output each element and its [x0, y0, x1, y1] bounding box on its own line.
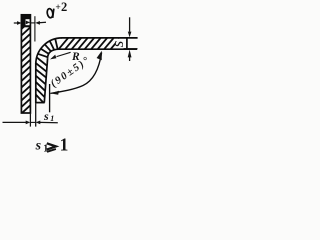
dimension s (sheet thickness, right): [128, 17, 132, 61]
svg-text:s: s: [43, 109, 49, 123]
leg left face: [35, 63, 37, 103]
erased pocket in sheet for thickness label s: [116, 39, 126, 49]
note s1 >= 1: [35, 134, 69, 154]
leg right face (tapered): [44, 58, 47, 102]
flanged sheet section hatching (bar, bend fan, leg): [36, 38, 120, 105]
leg bottom edge: [35, 102, 45, 104]
svg-text:2: 2: [61, 0, 67, 14]
bar strokes "/": [58, 38, 68, 50]
bar bottom edge: [59, 48, 138, 50]
svg-text:1: 1: [50, 114, 54, 123]
bar right end: [126, 38, 128, 49]
bar top edge + right extension: [62, 37, 138, 39]
svg-text:+: +: [55, 3, 60, 13]
inner bend curve: [48, 49, 60, 58]
extension line (bottom) of thickness dimension s: [124, 48, 138, 50]
outer bend curve: [36, 38, 62, 64]
bend radius label R with leader arrow: [50, 52, 71, 59]
dimension a+2 (gap at bend, top): [14, 16, 46, 41]
wall outline: [21, 15, 30, 113]
dimension s1 (gap at flange tip, bottom): [3, 104, 58, 127]
svg-text:s: s: [108, 40, 127, 47]
bend angle dimension (90±5)° with arc: [50, 53, 102, 113]
svg-text:1: 1: [60, 134, 69, 154]
bend fan strokes: [55, 39, 58, 50]
wall section hatching: [21, 14, 31, 114]
flanged sheet outline: [35, 38, 137, 103]
leg strokes "\": [36, 57, 49, 67]
svg-text:s: s: [35, 139, 42, 154]
erased pocket in wall for dimension a arrow: [26, 19, 31, 25]
